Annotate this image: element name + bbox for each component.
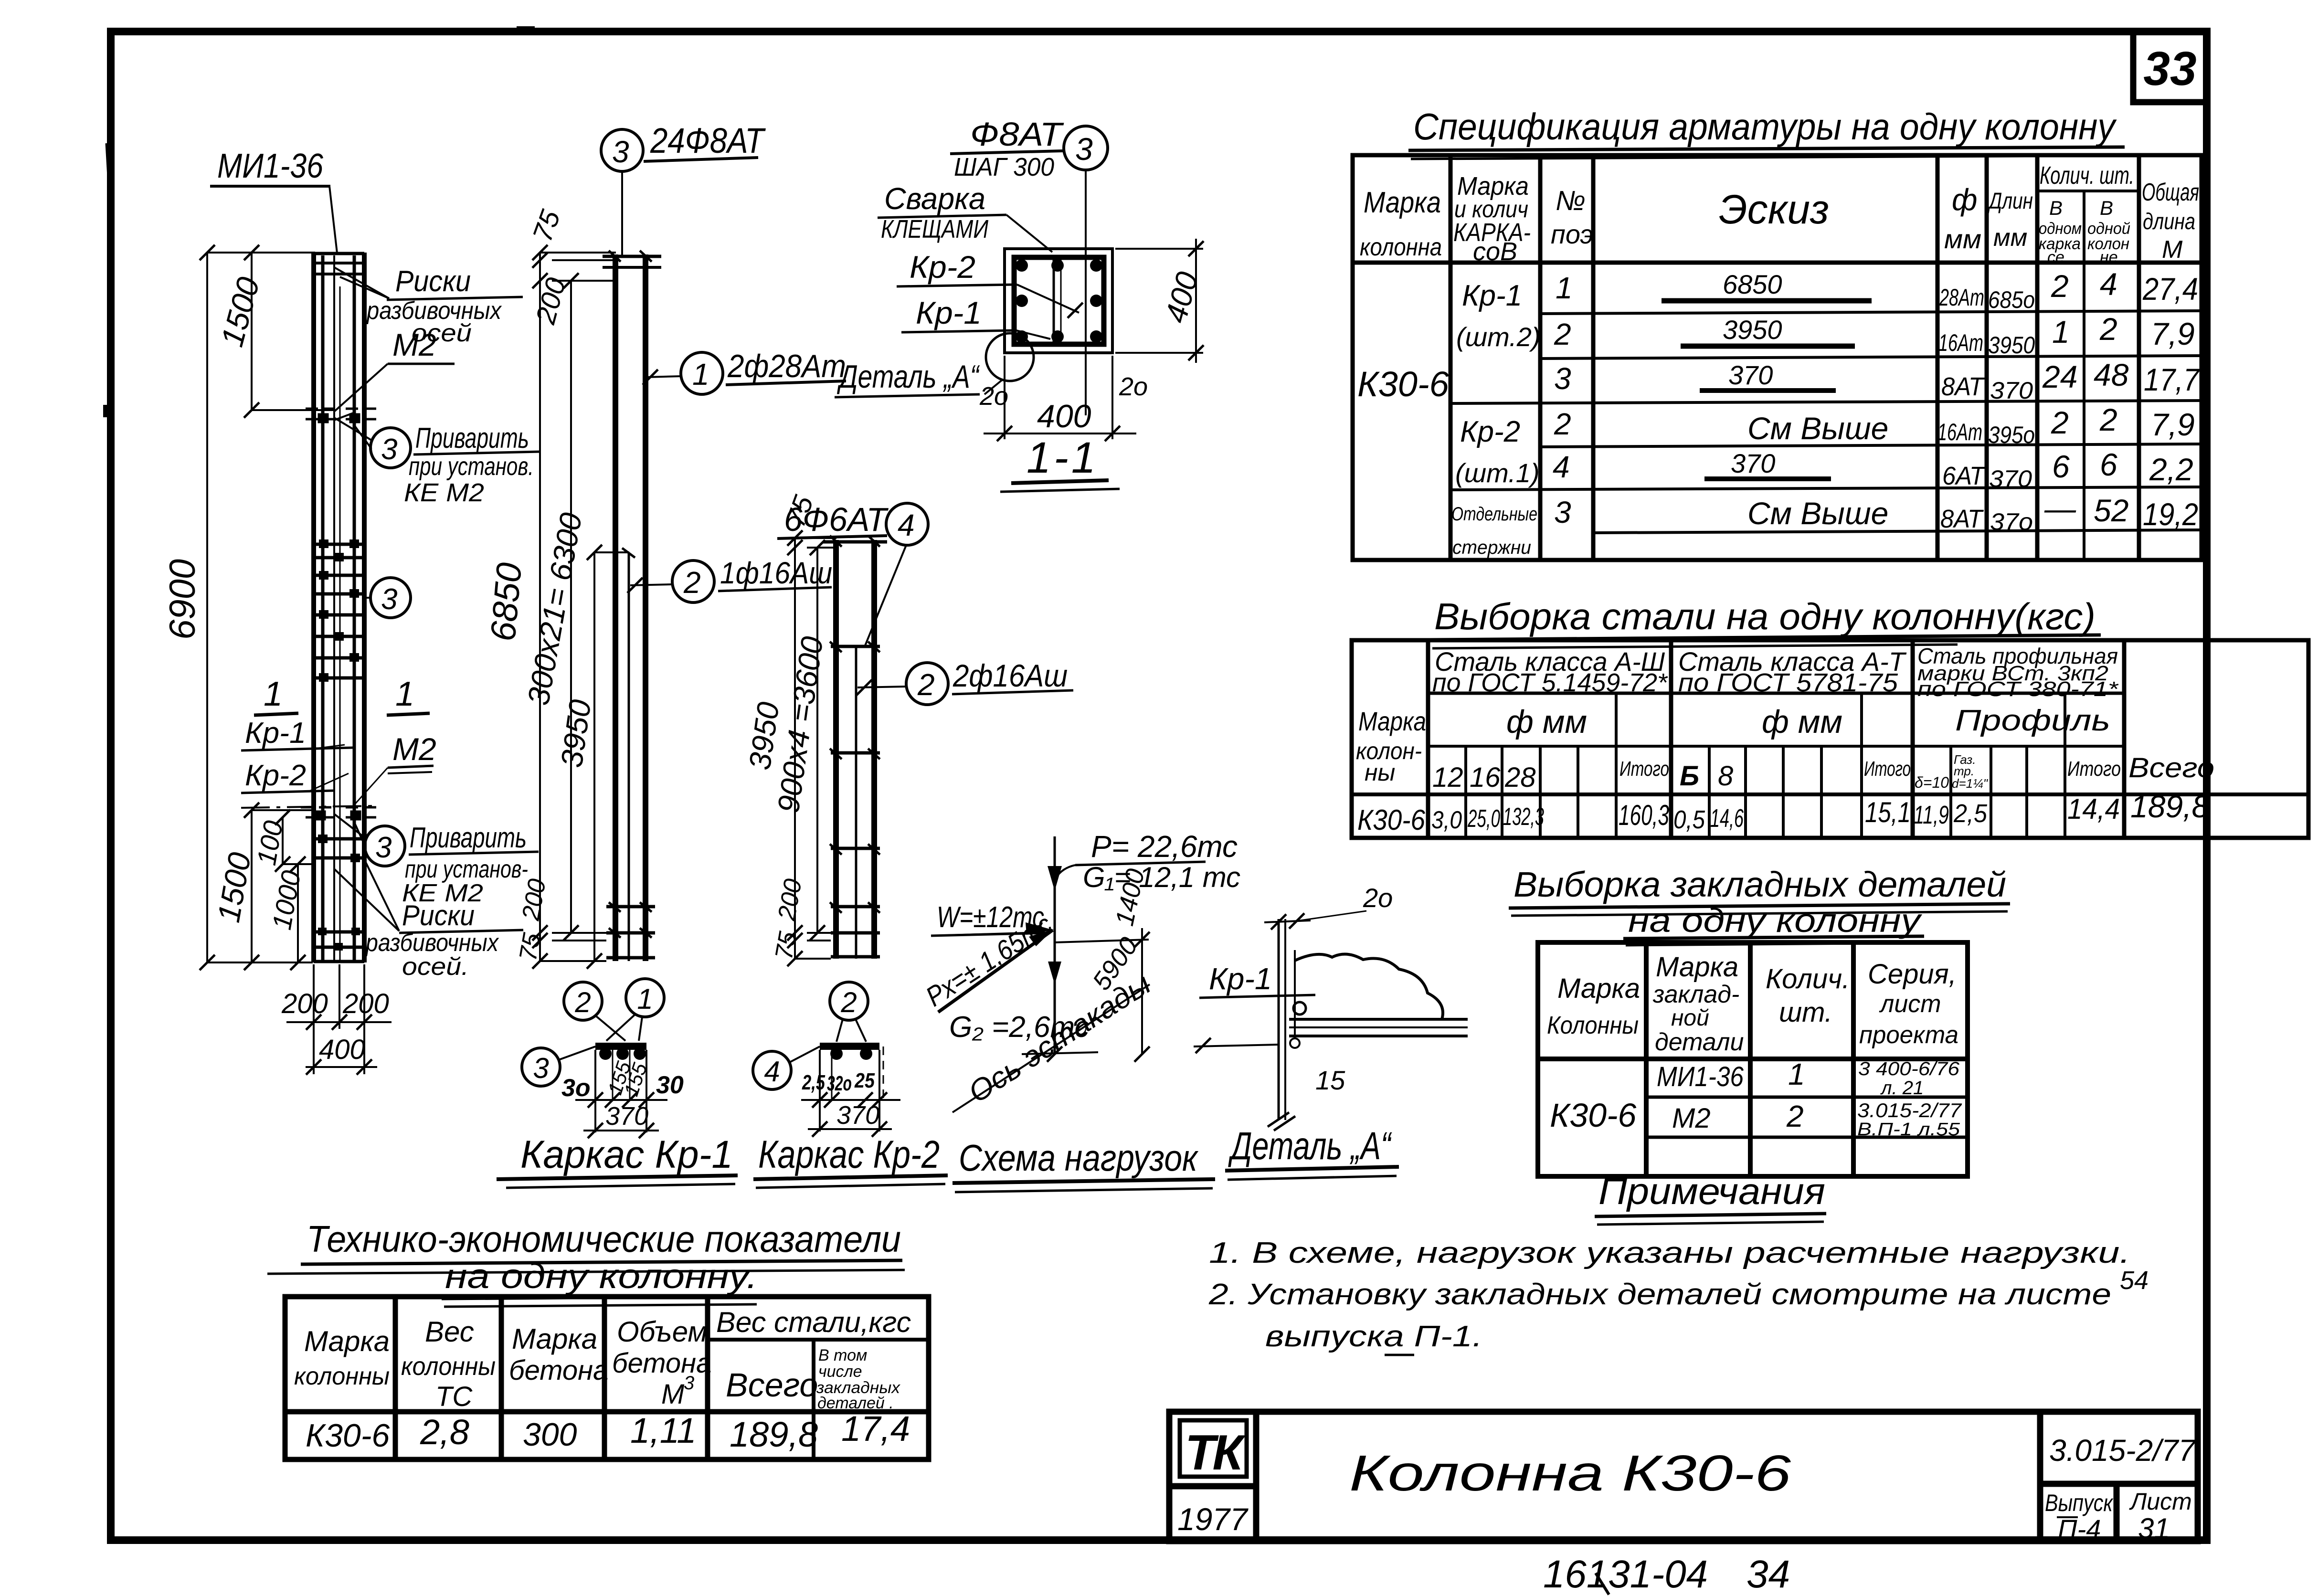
- svg-text:3: 3: [612, 135, 629, 169]
- svg-text:Отдельные: Отдельные: [1451, 504, 1537, 525]
- svg-text:Схема нагрузок: Схема нагрузок: [959, 1137, 1199, 1179]
- svg-text:3о: 3о: [561, 1074, 591, 1102]
- label МИ1-36: [210, 147, 337, 253]
- svg-text:1: 1: [2052, 314, 2070, 349]
- svg-text:Общая: Общая: [2142, 179, 2199, 206]
- svg-text:МИ1-36: МИ1-36: [1657, 1061, 1744, 1092]
- svg-text:Всего: Всего: [726, 1366, 818, 1404]
- label Риски разбивочных осей top: [334, 265, 523, 347]
- svg-text:Выпуск: Выпуск: [2045, 1490, 2114, 1516]
- svg-text:Марка: Марка: [1656, 951, 1738, 983]
- svg-text:2: 2: [2099, 311, 2117, 347]
- svg-text:1: 1: [395, 675, 414, 713]
- title block frame: [1169, 1412, 2198, 1541]
- svg-text:370: 370: [1989, 465, 2032, 492]
- svg-text:6Ф6АТ: 6Ф6АТ: [784, 501, 889, 538]
- svg-text:См Выше: См Выше: [1747, 411, 1888, 446]
- svg-text:Примечания: Примечания: [1598, 1170, 1825, 1212]
- svg-text:ТК: ТК: [1185, 1425, 1246, 1480]
- load schema view: [1054, 836, 1056, 1054]
- svg-text:370: 370: [1731, 448, 1775, 478]
- svg-text:12: 12: [1432, 762, 1463, 793]
- svg-text:2: 2: [1554, 317, 1571, 351]
- svg-text:1,11: 1,11: [630, 1411, 697, 1450]
- steel table sub column lines: [1466, 693, 2065, 838]
- svg-text:4: 4: [1553, 450, 1570, 484]
- svg-text:200: 200: [342, 988, 389, 1019]
- svg-text:24Ф8АТ: 24Ф8АТ: [650, 121, 766, 160]
- svg-text:К30-6: К30-6: [1357, 804, 1426, 836]
- svg-text:2,8: 2,8: [420, 1412, 469, 1452]
- Kr-1 dimension 6850 with 75 200 segments: [540, 253, 616, 961]
- svg-text:14,4: 14,4: [2067, 793, 2120, 825]
- svg-text:2: 2: [683, 565, 701, 600]
- bottom width dimensions 200 200 400: [286, 964, 392, 1074]
- svg-text:Колонны: Колонны: [1547, 1012, 1639, 1039]
- svg-text:шт.: шт.: [1779, 997, 1832, 1028]
- svg-text:28: 28: [1504, 762, 1536, 793]
- svg-text:Кр-1: Кр-1: [1209, 962, 1272, 996]
- svg-text:370: 370: [836, 1101, 879, 1130]
- TK logo: [1177, 1420, 1249, 1537]
- svg-text:КЛЕЩАМИ: КЛЕЩАМИ: [881, 215, 988, 243]
- svg-text:на одну колонну: на одну колонну: [1628, 902, 1923, 939]
- svg-text:16131-04: 16131-04: [1543, 1553, 1708, 1596]
- svg-text:370: 370: [1728, 360, 1773, 390]
- detail A bracket plate: [1289, 954, 1468, 1048]
- svg-text:2. Установку закладных детал: 2. Установку закладных деталей смотрите …: [1208, 1278, 2111, 1311]
- label Сварка клещами: [878, 181, 1052, 252]
- svg-text:4: 4: [898, 508, 915, 542]
- svg-text:ф мм: ф мм: [1762, 704, 1842, 740]
- svg-text:3: 3: [375, 831, 392, 864]
- svg-text:395о: 395о: [1988, 422, 2035, 448]
- svg-text:1ф16Аш: 1ф16Аш: [720, 556, 832, 590]
- svg-text:Итого: Итого: [2067, 757, 2121, 781]
- svg-text:30: 30: [656, 1071, 684, 1099]
- embedded parts table grid: [1538, 942, 1968, 1176]
- svg-text:Деталь „А“: Деталь „А“: [1228, 1124, 1392, 1168]
- svg-text:Б: Б: [1680, 761, 1699, 792]
- svg-text:3: 3: [684, 1373, 694, 1394]
- svg-text:8: 8: [1718, 761, 1733, 792]
- lower embed M2 mark dashed: [301, 807, 382, 819]
- svg-text:бетона: бетона: [509, 1355, 608, 1386]
- svg-text:Лист: Лист: [2129, 1488, 2192, 1515]
- svg-text:2: 2: [1786, 1099, 1804, 1133]
- svg-text:Длин: Длин: [1987, 189, 2033, 214]
- svg-text:16Ат: 16Ат: [1937, 419, 1982, 445]
- svg-text:колонны: колонны: [401, 1352, 496, 1381]
- svg-text:2: 2: [1554, 407, 1571, 441]
- svg-text:Марка: Марка: [1364, 186, 1441, 219]
- svg-text:В.П-1 л.55: В.П-1 л.55: [1857, 1120, 1960, 1140]
- svg-text:К30-6: К30-6: [1357, 364, 1450, 404]
- svg-text:3.015-2/77: 3.015-2/77: [1857, 1099, 1962, 1121]
- svg-text:2,2: 2,2: [2149, 452, 2193, 487]
- svg-text:№: №: [1556, 185, 1586, 216]
- frame Kr-1 elevation view: [603, 254, 661, 961]
- svg-text:75: 75: [770, 929, 802, 962]
- svg-text:160,3: 160,3: [1619, 799, 1669, 831]
- technical-economic table grid: [285, 1297, 929, 1459]
- svg-text:ной: ной: [1671, 1005, 1709, 1031]
- svg-text:Марка: Марка: [304, 1325, 390, 1357]
- reinforcement specification table grid: [1353, 155, 2202, 560]
- svg-text:при установ.: при установ.: [409, 452, 534, 481]
- svg-text:G₁= 12,1 тс: G₁= 12,1 тс: [1083, 861, 1240, 893]
- dimension 6900: [207, 253, 315, 962]
- title: Выборка закладных деталей на одну колонну: [1509, 865, 2010, 945]
- marker 2 with callout 1ф16АШ: [627, 556, 832, 602]
- svg-text:Кр-2: Кр-2: [1460, 415, 1520, 448]
- svg-text:М2: М2: [392, 731, 436, 767]
- lower stirrups: [315, 839, 364, 947]
- Kr-2 dimension 3950 75 200: [795, 538, 836, 959]
- svg-text:мм: мм: [1944, 224, 1981, 254]
- dimension 100: [283, 817, 315, 864]
- svg-text:37о: 37о: [1990, 508, 2033, 535]
- specification table row lines: [1450, 311, 2202, 533]
- svg-text:1: 1: [637, 983, 653, 1015]
- svg-text:25: 25: [854, 1069, 875, 1092]
- svg-text:М2: М2: [392, 327, 436, 362]
- label M2 top: [334, 327, 455, 420]
- stirrup cluster weld dots: [319, 539, 359, 682]
- load arrow G2: [1048, 962, 1061, 984]
- steel table data row: [1357, 789, 2209, 836]
- svg-text:К30-6: К30-6: [306, 1417, 390, 1454]
- title: Технико-экономические показатели на одну колонну: [267, 1218, 905, 1307]
- svg-text:Эскиз: Эскиз: [1719, 187, 1829, 233]
- svg-text:3: 3: [533, 1052, 549, 1084]
- title: Выборка стали на одну колонну (кгс): [1430, 595, 2101, 648]
- svg-text:М: М: [2162, 236, 2183, 264]
- svg-text:Серия,: Серия,: [1868, 959, 1957, 990]
- marker 4 with callout 6Ф6АТ: [777, 501, 928, 645]
- svg-text:189,8: 189,8: [730, 1415, 818, 1454]
- label Ось эстакады slanted: [953, 967, 1157, 1112]
- svg-text:1: 1: [264, 675, 283, 713]
- section cut marks 1-1: [241, 675, 436, 806]
- svg-text:17,4: 17,4: [841, 1409, 910, 1448]
- svg-text:по ГОСТ 5.1459-72*: по ГОСТ 5.1459-72*: [1432, 668, 1668, 697]
- horizontal reference line: [1022, 928, 1149, 1054]
- svg-text:Спецификация арматуры на од: Спецификация арматуры на одну колонну: [1413, 106, 2117, 148]
- svg-text:3,0: 3,0: [1431, 806, 1462, 834]
- svg-text:2о: 2о: [1119, 372, 1148, 401]
- svg-text:14,6: 14,6: [1710, 804, 1744, 833]
- svg-text:685о: 685о: [1988, 286, 2035, 313]
- section rebar dots: [1016, 259, 1102, 343]
- column body outline: [311, 253, 316, 962]
- svg-text:л. 21: л. 21: [1880, 1078, 1924, 1099]
- steel summary table grid: [1352, 640, 2308, 838]
- svg-text:по ГОСТ 380-71*: по ГОСТ 380-71*: [1917, 677, 2119, 701]
- detail A label Кр-1: [1199, 962, 1315, 998]
- svg-text:бетона: бетона: [612, 1348, 711, 1379]
- svg-text:Итого: Итого: [1864, 757, 1911, 781]
- svg-text:по ГОСТ 5781-75: по ГОСТ 5781-75: [1678, 668, 1898, 697]
- svg-text:се: се: [2047, 248, 2064, 266]
- svg-text:1977: 1977: [1177, 1501, 1249, 1537]
- svg-text:1: 1: [692, 357, 709, 391]
- svg-text:(шт.1): (шт.1): [1455, 458, 1540, 488]
- svg-text:МИ1-36: МИ1-36: [217, 147, 324, 185]
- svg-text:Приварить: Приварить: [415, 422, 529, 454]
- svg-text:2: 2: [840, 986, 857, 1018]
- svg-text:32о: 32о: [827, 1072, 852, 1095]
- svg-text:на одну колонну.: на одну колонну.: [445, 1258, 758, 1296]
- svg-text:См Выше: См Выше: [1747, 496, 1888, 531]
- svg-text:ф мм: ф мм: [1506, 704, 1587, 740]
- specification table headers: [1360, 162, 2199, 266]
- svg-text:16: 16: [1470, 762, 1501, 793]
- svg-text:ШАГ 300: ШАГ 300: [954, 153, 1054, 181]
- svg-text:34: 34: [1746, 1553, 1790, 1596]
- svg-text:М: М: [661, 1379, 685, 1410]
- label Риски разбивочных осей bottom: [334, 859, 523, 981]
- svg-text:Кр-2: Кр-2: [245, 759, 306, 792]
- section 400 width dimension: [984, 356, 1136, 439]
- marker 3 middle: [366, 578, 411, 618]
- svg-text:заклад-: заклад-: [1652, 981, 1739, 1008]
- svg-text:КЕ М2: КЕ М2: [404, 478, 484, 507]
- svg-text:Марка: Марка: [512, 1323, 597, 1355]
- specification sketches column: [1662, 269, 1888, 531]
- marker 1 with callout 2ф28АШ: [643, 348, 846, 394]
- column elevation view K30-6: [314, 253, 364, 962]
- longitudinal reinforcement bars: [321, 255, 325, 961]
- svg-text:осей.: осей.: [402, 953, 469, 981]
- svg-text:400: 400: [1037, 398, 1091, 434]
- svg-text:Марка: Марка: [1358, 706, 1426, 736]
- svg-text:стержни: стержни: [1452, 537, 1531, 558]
- svg-text:Итого: Итого: [1619, 757, 1669, 781]
- detail A label 20 dimension: [1264, 883, 1393, 930]
- svg-text:0,5: 0,5: [1673, 805, 1705, 834]
- svg-text:мм: мм: [1993, 224, 2027, 252]
- svg-text:ТС: ТС: [435, 1381, 473, 1412]
- Kr-1 dimension 300x21=6300: [570, 281, 572, 933]
- svg-text:ны: ны: [1365, 759, 1395, 786]
- detail A bottom break marks: [1268, 1112, 1295, 1131]
- svg-text:15,1: 15,1: [1865, 796, 1911, 828]
- svg-text:В: В: [2049, 197, 2063, 219]
- specification quantity data: [2042, 266, 2200, 532]
- svg-text:28Ат: 28Ат: [1939, 284, 1984, 311]
- specification column 2 frame marks: [1451, 279, 1541, 558]
- svg-text:числе: числе: [818, 1363, 862, 1381]
- detail A left dimension line: [1194, 1045, 1279, 1046]
- top border small gap artifact: [517, 26, 535, 31]
- section 1-1 view: [1005, 249, 1112, 353]
- marker 3 with callout 24Ф8АТ: [601, 121, 766, 258]
- svg-text:Каркас Кр-2: Каркас Кр-2: [758, 1133, 940, 1176]
- svg-text:2о: 2о: [979, 382, 1008, 411]
- svg-text:3950: 3950: [1988, 332, 2035, 359]
- load arrow P top: [1054, 836, 1056, 883]
- section cut line dash-dot: [241, 806, 377, 808]
- svg-text:25,0: 25,0: [1467, 805, 1500, 833]
- svg-text:15: 15: [1315, 1065, 1345, 1095]
- embedded parts table headers: [1547, 951, 1958, 1056]
- svg-text:24: 24: [2042, 359, 2077, 394]
- svg-text:К30-6: К30-6: [1550, 1097, 1636, 1134]
- marker 3 with note Приварить при установке М2 upper: [334, 418, 540, 507]
- svg-text:Объем: Объем: [617, 1316, 708, 1348]
- svg-text:6: 6: [2052, 449, 2070, 484]
- Kr-1 dimension 3950: [594, 552, 629, 961]
- svg-text:2о: 2о: [1363, 883, 1393, 913]
- svg-text:3: 3: [1554, 495, 1571, 529]
- Kr-2 dimension 900x4=3600: [816, 548, 818, 933]
- svg-text:Колич.: Колич.: [1766, 963, 1850, 994]
- svg-text:1. В схеме, нагрузок указаны: 1. В схеме, нагрузок указаны расчетные н…: [1209, 1237, 2130, 1269]
- svg-text:400: 400: [319, 1034, 365, 1065]
- svg-text:колонна: колонна: [1360, 233, 1442, 261]
- svg-text:3: 3: [1554, 361, 1571, 396]
- section 400 height dimension: [1115, 239, 1203, 363]
- svg-text:31: 31: [2138, 1512, 2170, 1544]
- svg-text:Каркас Кр-1: Каркас Кр-1: [520, 1133, 733, 1176]
- svg-text:3: 3: [381, 433, 397, 466]
- svg-text:7,9: 7,9: [2151, 407, 2195, 442]
- svg-text:проекта: проекта: [1859, 1021, 1958, 1049]
- svg-text:6850: 6850: [483, 561, 529, 643]
- dimension 1500 upper: [252, 253, 334, 410]
- svg-text:3 400-6/76: 3 400-6/76: [1858, 1058, 1960, 1079]
- svg-text:δ=10: δ=10: [1915, 774, 1949, 791]
- label Px=±1,65тс slanted arrow: [921, 909, 1058, 1013]
- svg-text:33: 33: [2143, 42, 2196, 95]
- svg-text:52: 52: [2094, 493, 2128, 528]
- svg-text:детали: детали: [1655, 1028, 1744, 1056]
- svg-text:4: 4: [2100, 266, 2117, 302]
- svg-text:—: —: [2044, 491, 2076, 526]
- marker 3 with callout Ф8АТ шаг 300: [950, 116, 1108, 415]
- svg-text:2: 2: [917, 667, 935, 702]
- svg-text:48: 48: [2094, 357, 2129, 392]
- top stirrups: [315, 263, 364, 274]
- Kr-2 bottom section view: [753, 982, 900, 1137]
- svg-text:Приварить: Приварить: [410, 822, 527, 854]
- svg-text:6: 6: [2100, 447, 2117, 482]
- svg-text:370: 370: [605, 1102, 648, 1131]
- svg-text:П-4: П-4: [2058, 1514, 2101, 1544]
- svg-text:3: 3: [381, 583, 397, 616]
- svg-text:М2: М2: [1672, 1103, 1711, 1134]
- frame Kr-2 elevation view: [823, 540, 887, 959]
- svg-text:8АТ: 8АТ: [1941, 372, 1985, 401]
- svg-text:выпуска П-1.: выпуска П-1.: [1265, 1320, 1482, 1353]
- svg-text:Кр-2: Кр-2: [910, 249, 975, 285]
- label Кр-2 with leader: [897, 249, 1083, 318]
- frame centering mark left: [107, 143, 109, 177]
- svg-text:1-1: 1-1: [1027, 433, 1099, 482]
- svg-text:132,3: 132,3: [1503, 803, 1544, 831]
- svg-text:В: В: [2100, 197, 2113, 219]
- svg-text:соВ: соВ: [1473, 237, 1517, 266]
- svg-text:11,9: 11,9: [1914, 801, 1949, 829]
- svg-text:1: 1: [1556, 271, 1573, 305]
- svg-text:6АТ: 6АТ: [1942, 462, 1986, 490]
- svg-text:2,5: 2,5: [802, 1071, 825, 1094]
- svg-text:Вес стали,кгс: Вес стали,кгс: [716, 1306, 911, 1338]
- svg-text:Профиль: Профиль: [1955, 704, 2110, 737]
- svg-text:лист: лист: [1879, 990, 1941, 1018]
- svg-text:200: 200: [281, 988, 328, 1019]
- detail A view: [1279, 919, 1295, 1120]
- label Деталь А with circle: [835, 333, 1034, 397]
- Kr-1 bottom section view: [522, 979, 684, 1138]
- svg-text:Риски: Риски: [402, 899, 475, 931]
- upper embed M2 mark dashed: [306, 409, 377, 422]
- svg-text:Технико-экономические показат: Технико-экономические показатели: [307, 1218, 901, 1260]
- svg-text:16Ат: 16Ат: [1938, 329, 1983, 356]
- Kr-1 stirrup tick marks: [609, 251, 652, 938]
- svg-text:Кр-1: Кр-1: [1462, 279, 1522, 312]
- marker 2 with callout 2ф16АШ for Kr-2: [857, 658, 1073, 705]
- svg-text:Деталь „А“: Деталь „А“: [836, 359, 980, 395]
- svg-text:2ф28Ат: 2ф28Ат: [727, 348, 846, 384]
- svg-text:Риски: Риски: [395, 265, 471, 298]
- middle stirrup cluster: [315, 544, 364, 678]
- svg-text:3950: 3950: [1723, 315, 1782, 345]
- svg-text:ф: ф: [1952, 182, 1977, 217]
- svg-text:d=1¼": d=1¼": [1952, 776, 1989, 791]
- svg-text:8АТ: 8АТ: [1940, 505, 1984, 533]
- svg-text:Колич. шт.: Колич. шт.: [2040, 162, 2134, 190]
- embedded parts table data: [1550, 1057, 1962, 1140]
- svg-text:2,5: 2,5: [1953, 799, 1988, 828]
- sheet number box 33: [2133, 32, 2207, 102]
- svg-text:Всего: Всего: [2128, 752, 2214, 783]
- svg-text:189,8: 189,8: [2130, 789, 2209, 824]
- dimension 1000: [297, 864, 299, 962]
- svg-text:Колонна К30-6: Колонна К30-6: [1349, 1445, 1791, 1501]
- svg-text:Ф8АТ: Ф8АТ: [970, 116, 1064, 153]
- svg-text:Кр-1: Кр-1: [245, 717, 306, 750]
- steel table headers: [1356, 644, 2214, 793]
- svg-text:Вес: Вес: [425, 1316, 474, 1348]
- svg-text:2: 2: [574, 986, 591, 1018]
- dimension 1500 lower: [252, 810, 315, 962]
- svg-text:27,4: 27,4: [2142, 271, 2198, 307]
- svg-text:6900: 6900: [162, 559, 203, 640]
- svg-text:75: 75: [514, 930, 546, 963]
- label W=±12тс with arrow: [931, 901, 1053, 936]
- svg-text:Выборка стали на одну коло: Выборка стали на одну колонну(кгс): [1434, 595, 2096, 637]
- svg-text:3: 3: [1075, 131, 1093, 167]
- svg-text:19,2: 19,2: [2143, 497, 2198, 532]
- svg-text:300: 300: [523, 1416, 577, 1453]
- title: Спецификация арматуры на одну колонну: [1408, 106, 2125, 159]
- svg-text:370: 370: [1990, 377, 2033, 404]
- svg-text:В том: В том: [818, 1346, 867, 1364]
- svg-text:6850: 6850: [1723, 269, 1782, 299]
- svg-text:Кр-1: Кр-1: [916, 295, 982, 330]
- svg-text:не: не: [2100, 248, 2118, 266]
- svg-text:2: 2: [2051, 268, 2069, 304]
- svg-text:4: 4: [764, 1056, 780, 1088]
- section title 1-1: [1000, 433, 1120, 492]
- svg-text:1: 1: [1788, 1057, 1805, 1091]
- svg-text:колонны: колонны: [294, 1363, 390, 1390]
- svg-text:2: 2: [2099, 402, 2117, 437]
- svg-text:Р= 22,6тс: Р= 22,6тс: [1091, 829, 1238, 864]
- label P=22,6тс: [1056, 829, 1238, 877]
